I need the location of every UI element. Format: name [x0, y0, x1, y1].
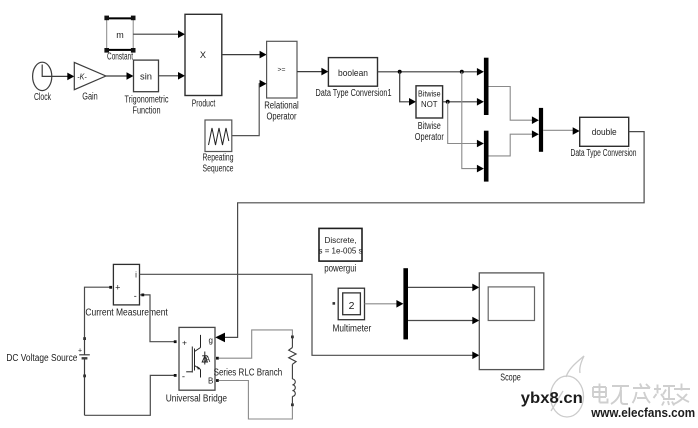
wire Constant to Product input 1 [133, 33, 179, 35]
junction node at bitwise output branch [446, 100, 450, 104]
mux M1 (black bar) [484, 58, 489, 115]
wire bridge B to RLC branch bottom [219, 381, 293, 420]
svg-text:boolean: boolean [338, 68, 368, 79]
svg-text:B: B [208, 377, 213, 386]
svg-text:Discrete,: Discrete, [325, 236, 357, 245]
svg-text:Current Measurement: Current Measurement [85, 308, 168, 319]
watermark chinese characters "dian zi fa shao you" (drawn strokes) [593, 384, 690, 406]
svg-text:Operator: Operator [267, 112, 298, 123]
svg-text:Multimeter: Multimeter [333, 323, 372, 334]
dc voltage source DC Voltage Source (battery) [79, 338, 90, 415]
wire branch to Mux2 input 2 [462, 72, 478, 169]
constant block Constant "m" (selected, with handles) [104, 16, 135, 53]
svg-text:X: X [200, 50, 206, 60]
trigonometric function block "sin" [134, 60, 159, 92]
wire demux output 1 to scope input 1 [408, 286, 474, 288]
svg-text:>=: >= [278, 67, 286, 74]
port node dc source top [83, 337, 86, 340]
svg-text:+: + [115, 283, 120, 293]
clock source block Clock [33, 62, 52, 90]
port node RLC bottom [291, 403, 294, 406]
svg-text:powergui: powergui [324, 263, 356, 274]
wire Clock to Gain [52, 75, 69, 77]
mux M2 (black bar) [484, 131, 489, 182]
product block Product "X" [185, 14, 222, 95]
svg-text:www.elecfans.com: www.elecfans.com [590, 406, 695, 420]
svg-text:-: - [134, 291, 137, 301]
current measurement block [113, 264, 139, 305]
junction node at boolean wire branch to Bitwise [398, 70, 402, 74]
relational operator block ">=" [267, 41, 297, 98]
wire multimeter to demux [365, 303, 399, 305]
svg-text:m: m [116, 30, 124, 40]
svg-text:-: - [182, 372, 185, 383]
port node on current measurement + [109, 286, 112, 289]
junction node at boolean wire branch down [460, 70, 464, 74]
svg-text:Data Type Conversion: Data Type Conversion [571, 148, 637, 159]
wire demux output 2 to scope input 2 [408, 320, 474, 322]
svg-text:g: g [208, 336, 212, 345]
wire Mux1 output to Mux3 input 1 [489, 87, 534, 121]
svg-text:Scope: Scope [500, 373, 521, 384]
diode icon inside universal bridge [202, 352, 207, 365]
demux D1 (black bar) before scope [403, 268, 408, 339]
multimeter block [338, 288, 364, 320]
port node current measurement - [141, 294, 144, 297]
svg-text:Function: Function [133, 105, 161, 116]
scope block [479, 273, 544, 370]
svg-text:-K-: -K- [77, 72, 87, 81]
svg-text:Bitwise: Bitwise [418, 121, 441, 132]
wire branch to Mux2 input 1 [448, 102, 478, 144]
wire bridge A to RLC branch top [219, 330, 293, 358]
wire Relational Operator to boolean [297, 71, 322, 73]
svg-text:Product: Product [192, 99, 216, 110]
svg-text:Repeating: Repeating [203, 152, 234, 163]
wire DC source + to current measurement + port [85, 287, 111, 338]
port node bridge plus [174, 340, 177, 343]
svg-text:i: i [135, 271, 137, 280]
series RLC branch component [289, 338, 296, 403]
svg-text:A: A [205, 355, 211, 364]
wire sin to Product input 2 [159, 75, 180, 77]
port node multimeter left [333, 302, 336, 305]
powergui block "Discrete" [319, 228, 362, 261]
wire Bitwise NOT to Mux1 input 2 [443, 101, 478, 103]
svg-text:Gain: Gain [82, 92, 98, 103]
wire current measurement - to Universal Bridge + port [140, 295, 175, 342]
wire current measurement i output to Scope input 3 [140, 274, 474, 355]
svg-text:Clock: Clock [34, 92, 51, 103]
svg-text:2: 2 [349, 300, 355, 312]
svg-text:DC Voltage Source: DC Voltage Source [6, 353, 77, 364]
svg-text:+: + [182, 337, 187, 347]
port node bridge A [216, 357, 219, 360]
wire boolean to Mux1 input 1 [378, 71, 479, 73]
svg-text:s = 1e-005 s: s = 1e-005 s [319, 247, 363, 256]
wire branch down to Bitwise NOT input [400, 72, 410, 102]
svg-text:double: double [592, 127, 617, 138]
svg-text:Trigonometric: Trigonometric [125, 95, 169, 106]
universal bridge block [179, 327, 215, 390]
wire Repeating Sequence to Relational Operator input 2 [232, 84, 261, 136]
svg-text:Data Type Conversion1: Data Type Conversion1 [316, 88, 392, 99]
repeating sequence block [205, 120, 232, 152]
svg-text:Universal Bridge: Universal Bridge [166, 394, 228, 405]
wire Mux2 output to Mux3 input 2 [489, 134, 534, 156]
port node bridge minus [174, 374, 177, 377]
svg-text:Relational: Relational [264, 100, 299, 111]
svg-text:ybx8.cn: ybx8.cn [521, 390, 583, 407]
svg-text:Series RLC Branch: Series RLC Branch [214, 367, 283, 378]
mux M3 (black bar) [539, 108, 543, 152]
svg-text:Sequence: Sequence [203, 164, 234, 175]
wire Mux3 to double [543, 129, 574, 131]
gain block Gain (triangle) [74, 62, 106, 89]
wire Product to Relational Operator input 1 [222, 54, 261, 56]
svg-text:+: + [78, 348, 82, 355]
data type conversion block "double" [580, 117, 629, 146]
wire DC source - to Universal Bridge - port [85, 375, 175, 415]
port node bridge B [216, 379, 219, 382]
bitwise operator block "Bitwise NOT" [416, 86, 443, 118]
data type conversion1 block "boolean" [328, 58, 377, 87]
svg-text:Bitwise: Bitwise [418, 89, 441, 99]
svg-text:sin: sin [140, 71, 152, 81]
watermark leaf logo [551, 356, 585, 417]
wire Gain to Trigonometric Function [106, 75, 128, 77]
svg-text:Constant: Constant [107, 52, 133, 63]
port node RLC top [291, 336, 294, 339]
svg-text:NOT: NOT [421, 99, 438, 109]
port node dc source bottom [83, 375, 86, 378]
transistor icon inside universal bridge [186, 335, 200, 378]
svg-text:Operator: Operator [415, 132, 445, 143]
wire double output feedback to Universal Bridge gate g [224, 132, 644, 338]
